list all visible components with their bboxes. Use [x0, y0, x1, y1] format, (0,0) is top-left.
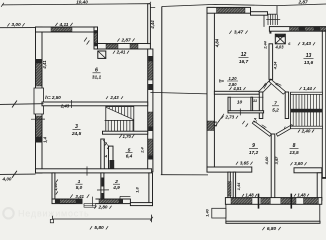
dimension text 4.11 [55, 23, 57, 26]
dimension text 2.80 annex [94, 206, 96, 209]
tick left end of 10.40 line [1, 3, 4, 7]
dimension text 2.73 [221, 116, 223, 119]
annex east wall [149, 173, 153, 206]
svg-text:10: 10 [237, 99, 243, 105]
west wall window W1 [36, 63, 42, 86]
veranda band hatch 1 [231, 198, 252, 204]
passage west wall [228, 172, 230, 199]
tick across partition 1/2 [97, 189, 109, 191]
svg-text:12: 12 [241, 52, 247, 58]
room 5 north wall (below stair) [103, 131, 148, 134]
rooms 10/11 south wall [228, 111, 264, 113]
west wall pier [34, 88, 44, 114]
veranda band hatch 2 [261, 198, 271, 204]
fence line middle-left [0, 103, 44, 106]
east wall dark pocket c [148, 127, 152, 131]
svg-text:4,14: 4,14 [272, 61, 277, 70]
svg-text:2,44: 2,44 [263, 40, 267, 49]
svg-text:4,44: 4,44 [150, 20, 155, 30]
annex dark pocket m [76, 199, 83, 203]
svg-text:3,00: 3,00 [11, 22, 21, 28]
dimension text 3.00 [7, 23, 9, 26]
annex south wall [52, 199, 130, 204]
dimension text 3.60 [290, 162, 292, 165]
dimension text 1.70 [119, 135, 121, 139]
partition P1 west of room 5 [101, 139, 105, 173]
east wall window E3 [148, 139, 153, 155]
svg-text:17,2: 17,2 [249, 150, 259, 156]
hall right wall [285, 92, 288, 119]
northeast band corner pocket [269, 31, 271, 33]
svg-text:2,80: 2,80 [98, 205, 108, 210]
east wall window E2 [148, 112, 153, 127]
dimension text 3.43 [298, 42, 300, 45]
partition rooms 1/2 [101, 173, 104, 199]
veranda band hatch 3 [281, 198, 296, 204]
main south wall left plan [36, 169, 152, 173]
fence line top-left [0, 27, 36, 29]
upper band wall of room 6 [98, 44, 151, 50]
yard line exiting right [322, 178, 326, 180]
room 5 west wall [109, 146, 114, 169]
svg-text:Недвижимость: Недвижимость [18, 209, 90, 219]
dimension text 2.41 [113, 51, 115, 54]
svg-text:3,43: 3,43 [302, 41, 311, 46]
top wall window [51, 28, 72, 32]
tick across west wall [31, 118, 45, 120]
watermark [3, 208, 89, 219]
svg-text:4,00: 4,00 [264, 156, 269, 166]
svg-text:31,1: 31,1 [92, 75, 102, 81]
band dark pier 1 [299, 27, 305, 31]
west wall window right plan [207, 121, 214, 131]
svg-text:2,73: 2,73 [224, 115, 234, 120]
svg-text:3,41: 3,41 [75, 194, 84, 199]
east wall window E1 [148, 61, 153, 80]
dimension text 3.47 [229, 31, 231, 34]
veranda band [225, 198, 321, 205]
hall left wall [259, 92, 263, 119]
left plan east wall [148, 49, 153, 172]
tick across annex south wall [91, 197, 93, 207]
svg-text:h=: h= [219, 79, 225, 84]
flue square right plan [275, 34, 285, 44]
top wall recessed jog [251, 12, 268, 16]
west wall dark pocket 3 [36, 137, 42, 143]
svg-text:4,84: 4,84 [215, 38, 220, 48]
svg-text:2,43: 2,43 [60, 104, 70, 109]
passage window [228, 182, 231, 196]
band window 3 [320, 27, 326, 31]
svg-text:h= 2,50: h= 2,50 [45, 95, 61, 100]
svg-text:5,0: 5,0 [76, 185, 83, 190]
svg-text:3,60: 3,60 [294, 161, 303, 166]
boundary line top right plan [162, 4, 326, 7]
band dark pier 2 [314, 27, 320, 31]
bold tick on veranda band left [258, 194, 260, 209]
central wall lower (rooms 9/8) [271, 134, 275, 199]
bold tick on veranda band right [290, 194, 292, 209]
svg-text:13: 13 [306, 53, 312, 59]
svg-text:10,40: 10,40 [76, 0, 88, 4]
east wall dark pocket b [148, 84, 152, 90]
rooms 10/11 divider [251, 97, 253, 111]
jog wall dark pocket a [94, 30, 97, 33]
svg-text:1,70: 1,70 [123, 134, 132, 139]
right plan top wall [207, 7, 251, 13]
fence line bottom-left [0, 173, 36, 175]
dimension text 5.80 [90, 226, 92, 229]
svg-text:1,48: 1,48 [245, 193, 254, 198]
svg-text:2,40: 2,40 [301, 128, 311, 133]
svg-text:4,51: 4,51 [232, 86, 242, 91]
dimension line 10.40 (top of left plan) [2, 4, 150, 5]
veranda southwest step [212, 208, 226, 218]
dimension text 4.51 [230, 87, 232, 90]
band window 2 [305, 27, 314, 31]
dimension text 2.43 above stair [106, 96, 108, 99]
svg-text:1,48: 1,48 [297, 192, 306, 197]
veranda bottom [226, 221, 320, 223]
veranda east edge [319, 204, 321, 221]
staircase right plan [291, 92, 323, 94]
svg-text:13,5: 13,5 [289, 150, 299, 156]
northeast wall band [269, 27, 326, 32]
east wall dark pocket d [148, 155, 152, 159]
flue square room 6 [98, 51, 106, 58]
room 2 nook [120, 195, 130, 197]
svg-text:4,03: 4,03 [275, 44, 285, 49]
svg-text:16,7: 16,7 [239, 59, 249, 65]
jog wall (top step) [94, 27, 98, 49]
east wall dark pocket a [148, 56, 152, 61]
svg-text:1,40: 1,40 [53, 182, 58, 190]
west wall dark pocket [36, 59, 42, 63]
hall lower-right diagonal wall [276, 125, 293, 137]
tick across south wall [86, 166, 88, 175]
top wall window right plan [217, 8, 246, 13]
annex door step [84, 204, 96, 208]
jog wall window [94, 33, 97, 43]
bottom dim left tick [52, 216, 54, 223]
partition rooms 1/2 dark pocket [101, 178, 103, 187]
tick right end of 10.40 line [148, 2, 151, 6]
tick at east wall top [150, 7, 155, 9]
annex window A1 [60, 199, 76, 203]
hall upper-left wall [259, 79, 273, 94]
room 10 west wall [228, 97, 230, 111]
right plan west wall [207, 7, 214, 172]
left plan west wall [36, 27, 43, 173]
slash on bottom fence [12, 171, 17, 178]
svg-text:3,97: 3,97 [274, 156, 279, 165]
hall upper-right wall [269, 79, 286, 94]
svg-text:1,4: 1,4 [42, 136, 47, 142]
dimension text 2.87 (left plan) [117, 38, 119, 41]
left plan top wall [36, 27, 98, 32]
svg-text:4,41: 4,41 [42, 60, 47, 70]
tick below room 10 [239, 109, 241, 116]
door swing slashes near hall lower-left [242, 121, 244, 124]
passage east wall [233, 172, 235, 199]
door swing slashes near jog [84, 38, 87, 42]
band window 1 [290, 27, 300, 31]
partition wall rooms 6/3 [42, 102, 148, 106]
room 10 box top line [230, 96, 263, 98]
svg-text:3,47: 3,47 [234, 30, 244, 36]
svg-text:2,87: 2,87 [120, 37, 131, 42]
svg-text:1,44: 1,44 [303, 86, 312, 91]
entry steps northeast [266, 19, 280, 21]
dimension text 1.48 left [242, 194, 244, 197]
svg-text:2,4: 2,4 [140, 146, 145, 153]
annex dark pocket w [55, 199, 60, 203]
svg-text:1,40: 1,40 [205, 208, 210, 216]
central wall upper (rooms 12/13) [269, 44, 273, 80]
north wall of lower-left section [214, 91, 259, 94]
staircase left plan [105, 106, 107, 132]
annex west wall [52, 173, 55, 199]
svg-text:2,87: 2,87 [297, 0, 308, 5]
svg-text:1,44: 1,44 [236, 182, 241, 190]
northeast porch edge [250, 7, 252, 11]
door swing room 5 [103, 140, 109, 146]
veranda band hatch 4 [304, 198, 319, 204]
annex southeast step wall [130, 203, 152, 206]
dimension text 3.65 [236, 162, 238, 165]
dark stub wall [110, 160, 115, 170]
south wall right plan left segment [207, 167, 252, 172]
door swing west of room 10 [215, 114, 224, 127]
hall lower-left diagonal wall [252, 121, 271, 136]
svg-text:4,00: 4,00 [2, 177, 12, 182]
yard line upper between plans [150, 92, 208, 94]
yard line lower between plans [161, 174, 208, 176]
slash on middle fence [12, 101, 17, 108]
svg-text:3,65: 3,65 [240, 161, 249, 166]
right plan east wall [322, 31, 326, 177]
svg-text:24,5: 24,5 [71, 131, 82, 137]
svg-text:4,9: 4,9 [112, 185, 120, 190]
window marks on hall diagonal walls [262, 83, 268, 89]
svg-text:5,80: 5,80 [94, 225, 104, 231]
svg-text:13,6: 13,6 [304, 60, 314, 66]
svg-text:5,2: 5,2 [272, 107, 279, 112]
annex dark pocket e [119, 199, 123, 203]
dimension text 2.40 below stair [298, 130, 300, 133]
fence between plans [161, 7, 163, 176]
dimension text 1.48 right [294, 194, 296, 197]
dimension text 3.41 [70, 194, 72, 198]
veranda west edge [225, 204, 227, 221]
dimension text 1.44 above stair [299, 87, 301, 90]
svg-text:1,4: 1,4 [253, 118, 257, 123]
south wall right plan right segment [294, 168, 322, 173]
band wall window [106, 44, 118, 49]
svg-text:2,41: 2,41 [116, 50, 126, 55]
dimension text 6.80 [262, 227, 264, 230]
west wall window W2 [36, 116, 42, 137]
door slashes room 5 [105, 143, 107, 146]
band wall window b [130, 44, 138, 49]
southeast wall [317, 173, 322, 201]
svg-text:6,80: 6,80 [267, 226, 277, 232]
svg-text:1,20: 1,20 [229, 76, 238, 81]
annex door gap [83, 198, 96, 204]
svg-text:6,4: 6,4 [126, 154, 133, 159]
tick on partition [71, 100, 73, 108]
jog wall dark pocket b [94, 43, 97, 46]
svg-text:1,8: 1,8 [135, 186, 140, 192]
bottom dim right tick [151, 215, 153, 223]
annex window A2 [99, 199, 119, 203]
bottom dimension line [53, 218, 152, 220]
svg-text:2,43: 2,43 [109, 95, 119, 100]
left plan east wall upper [148, 4, 151, 44]
